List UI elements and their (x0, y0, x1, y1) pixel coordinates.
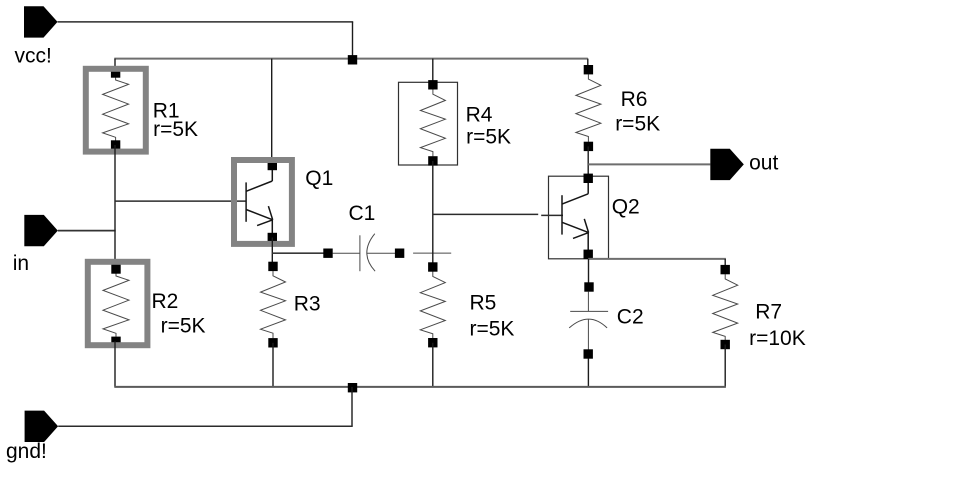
capacitor C1 (323, 234, 404, 272)
wire Q1 emitter down (271, 238, 273, 267)
resistor R6 (576, 65, 601, 151)
label R2 (152, 290, 179, 313)
svg-text:r=5K: r=5K (153, 118, 198, 141)
svg-text:R6: R6 (621, 88, 648, 111)
wire R7 to ground rail (724, 345, 726, 387)
wire Q1 base (115, 200, 246, 202)
label Q2 (612, 196, 640, 219)
svg-text:R7: R7 (755, 301, 782, 324)
svg-text:r=5K: r=5K (466, 125, 511, 148)
label R7 (755, 301, 782, 324)
wire rail to R4 stub (432, 59, 434, 85)
resistor R5 (420, 262, 445, 347)
transistor Q2 (549, 174, 609, 259)
svg-text:R3: R3 (294, 292, 321, 315)
svg-text:gnd!: gnd! (6, 440, 47, 463)
value label r=5K (R2) (161, 314, 206, 337)
label R4 (466, 104, 493, 127)
wire in to node (58, 230, 116, 232)
label R6 (621, 88, 648, 111)
resistor R4 (399, 80, 458, 165)
svg-text:C2: C2 (617, 306, 644, 329)
net label in (13, 252, 29, 275)
wire R3 to ground rail (272, 343, 274, 387)
resistor R1 (86, 68, 146, 151)
wire out (588, 163, 710, 165)
wire gnd riser (351, 387, 353, 426)
wire R1 to R2 node (114, 145, 116, 265)
label R5 (470, 291, 497, 314)
resistor R2 (88, 262, 148, 346)
svg-text:r=5K: r=5K (161, 314, 206, 337)
value label r=5K (R5) (470, 317, 515, 340)
svg-text:r=5K: r=5K (470, 317, 515, 340)
label C2 (617, 306, 644, 329)
svg-text:r=5K: r=5K (615, 112, 660, 135)
label C1 (349, 202, 376, 225)
wire R6 to Q2 collector (587, 146, 589, 178)
svg-text:in: in (13, 252, 29, 275)
value label r=5K (R1) (153, 118, 198, 141)
wire R1 top stub (114, 59, 116, 73)
wire vcc to rail (58, 22, 354, 59)
wire top rail (114, 58, 588, 60)
port in (24, 215, 58, 246)
svg-text:R4: R4 (466, 104, 493, 127)
wire gnd horizontal (58, 425, 353, 427)
wire Q1 collector stub (271, 59, 273, 166)
wire C1 node segment (413, 252, 451, 254)
port out (710, 149, 744, 180)
svg-text:R2: R2 (152, 290, 179, 313)
value label r=5K (R4) (466, 125, 511, 148)
wire R5 to ground rail (432, 343, 434, 387)
svg-text:r=10K: r=10K (749, 327, 806, 350)
svg-text:out: out (749, 151, 778, 174)
label Q1 (305, 167, 333, 190)
wire C2 to ground rail (587, 359, 589, 387)
capacitor C2 (569, 282, 608, 358)
label R3 (294, 292, 321, 315)
transistor Q1 (234, 160, 292, 244)
value label r=5K (R6) (615, 112, 660, 135)
node junction ground rail (348, 383, 357, 392)
wire Q2 emitter row (588, 259, 726, 270)
wire R4 to R5 node (432, 161, 434, 267)
svg-text:vcc!: vcc! (15, 45, 52, 68)
node junction top rail (348, 55, 357, 64)
resistor R3 (261, 262, 286, 348)
svg-text:Q1: Q1 (305, 167, 333, 190)
value label r=10K (R7) (749, 327, 806, 350)
port gnd! (25, 411, 59, 442)
wire ground rail (114, 386, 726, 388)
net label gnd! (6, 440, 47, 463)
net label out (749, 151, 778, 174)
wire Q2 emitter to C2 (588, 259, 590, 287)
net label vcc! (15, 45, 52, 68)
wire R2 to ground rail (114, 341, 116, 387)
svg-text:R5: R5 (470, 291, 497, 314)
label R1 (153, 100, 180, 123)
wire Q2 base (433, 214, 563, 215)
wire emitter to C1 (272, 252, 328, 254)
port vcc! (24, 6, 58, 37)
svg-text:Q2: Q2 (612, 196, 640, 219)
svg-text:C1: C1 (349, 202, 376, 225)
wire rail corner to R6 (587, 59, 589, 70)
resistor R7 (713, 265, 738, 349)
